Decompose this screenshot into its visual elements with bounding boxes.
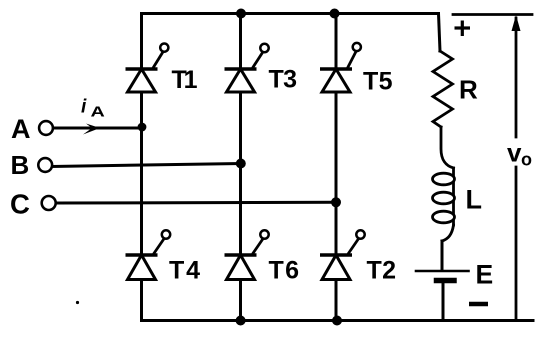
svg-text:6: 6 xyxy=(285,257,299,285)
svg-text:1: 1 xyxy=(184,66,198,94)
svg-text:T: T xyxy=(363,68,378,96)
svg-text:T: T xyxy=(269,66,284,94)
svg-text:T: T xyxy=(269,257,284,285)
svg-text:A: A xyxy=(11,114,31,144)
svg-text:A: A xyxy=(91,103,106,120)
svg-text:2: 2 xyxy=(382,257,396,285)
svg-text:T: T xyxy=(367,257,382,285)
svg-text:v: v xyxy=(507,138,522,168)
svg-text:E: E xyxy=(476,260,494,290)
svg-text:3: 3 xyxy=(283,66,297,94)
svg-text:4: 4 xyxy=(186,257,200,285)
svg-text:T: T xyxy=(169,257,184,285)
svg-text:C: C xyxy=(10,189,30,220)
svg-text:5: 5 xyxy=(379,68,393,96)
svg-text:R: R xyxy=(459,75,478,105)
svg-text:L: L xyxy=(466,185,483,215)
svg-text:B: B xyxy=(11,150,30,180)
svg-text:i: i xyxy=(81,97,87,118)
svg-text:o: o xyxy=(521,149,532,169)
